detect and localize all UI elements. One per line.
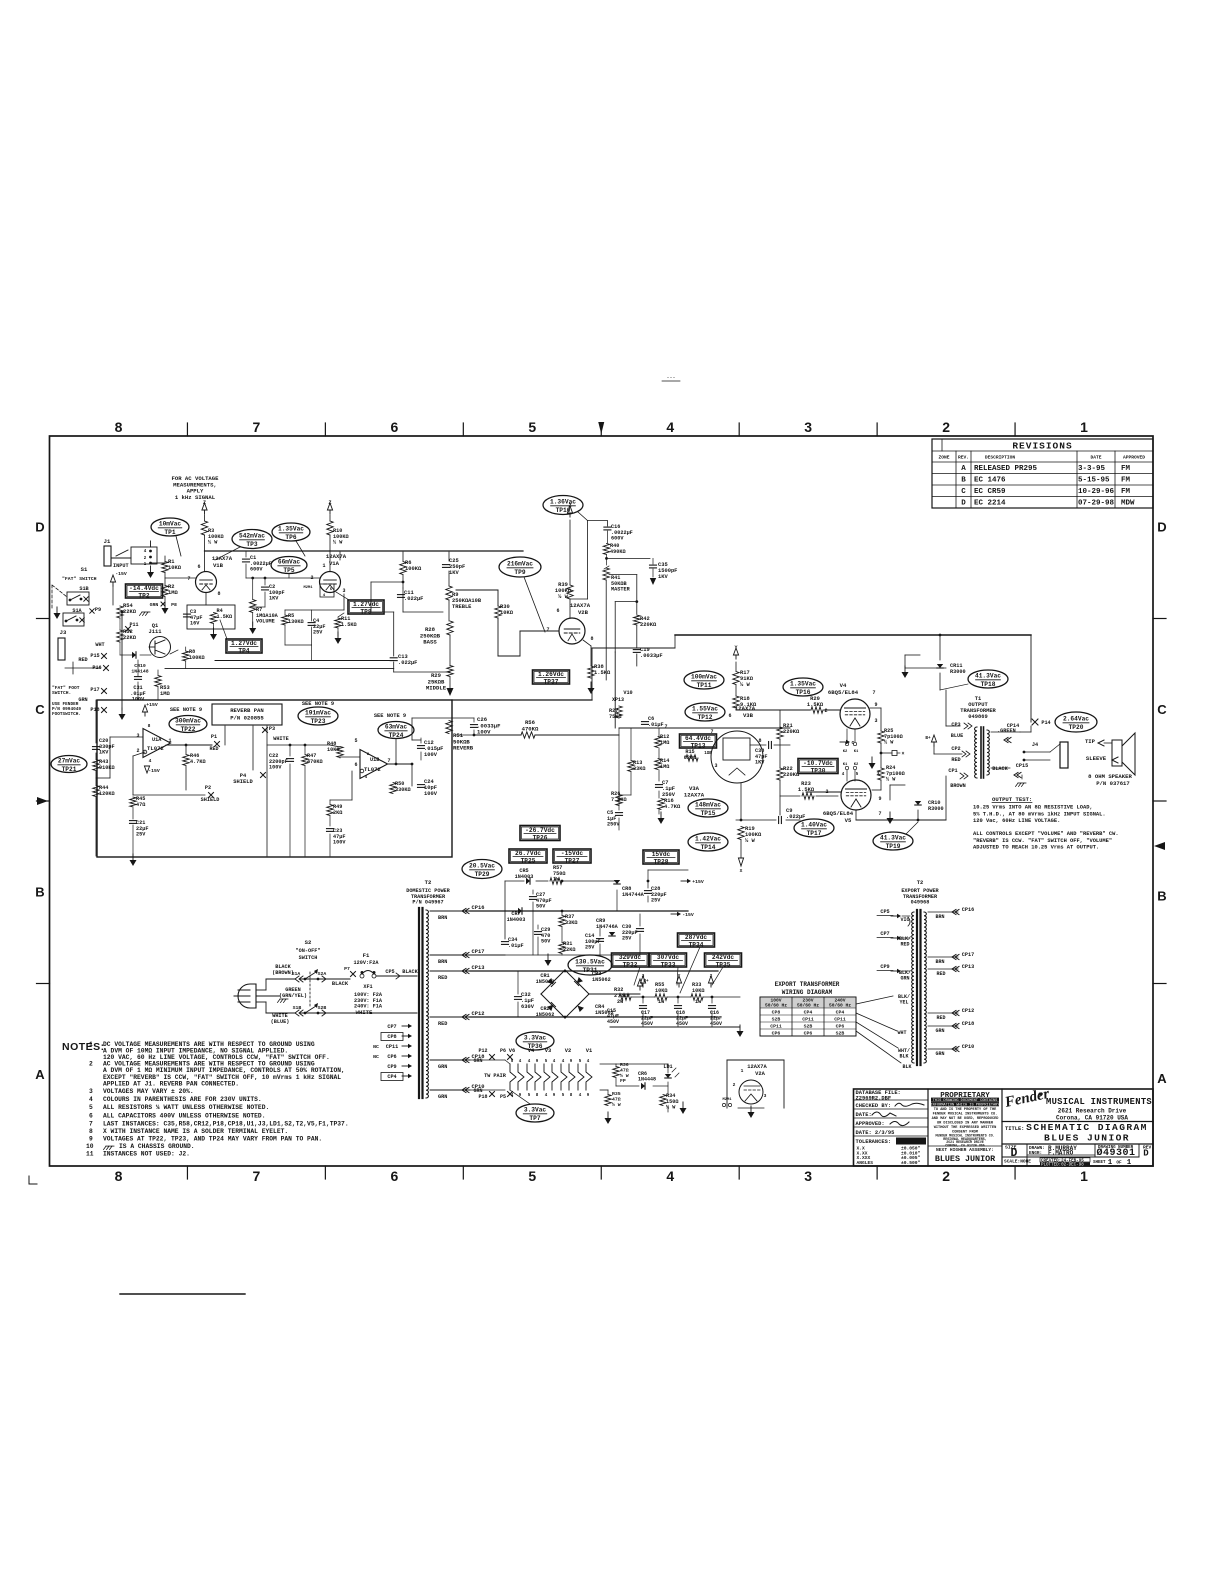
svg-text:CP13: CP13 — [472, 965, 485, 971]
svg-text:4: 4 — [89, 1096, 93, 1103]
svg-text:329Vdc: 329Vdc — [619, 954, 642, 961]
svg-text:Z: Z — [203, 500, 206, 506]
svg-text:TP10: TP10 — [556, 507, 571, 514]
svg-text:.01μF: .01μF — [508, 943, 524, 949]
svg-text:CP13: CP13 — [962, 964, 974, 970]
svg-text:INSTANCES NOT USED: J2.: INSTANCES NOT USED: J2. — [103, 1151, 190, 1158]
svg-text:307Vdc: 307Vdc — [657, 954, 680, 961]
svg-text:5: 5 — [528, 419, 536, 435]
svg-text:TP5: TP5 — [283, 567, 294, 574]
svg-text:J3: J3 — [60, 629, 67, 636]
svg-text:V4: V4 — [528, 1048, 535, 1054]
svg-text:BASS: BASS — [423, 639, 437, 646]
svg-text:K2: K2 — [843, 750, 848, 754]
svg-text:BRN: BRN — [438, 915, 447, 921]
svg-text:4: 4 — [666, 1168, 674, 1184]
svg-text:P6: P6 — [500, 1048, 506, 1054]
svg-text:B: B — [1157, 888, 1166, 903]
svg-text:P8: P8 — [171, 602, 177, 608]
svg-text:S1B: S1B — [293, 1005, 302, 1011]
svg-text:½ W: ½ W — [740, 682, 750, 688]
svg-text:100V: 100V — [424, 752, 438, 758]
svg-text:TP3: TP3 — [246, 541, 257, 548]
svg-text:Z2969R2.DBF: Z2969R2.DBF — [856, 1096, 892, 1102]
svg-text:1KV: 1KV — [755, 760, 765, 766]
svg-text:TP32: TP32 — [623, 961, 638, 968]
svg-text:1 kHz SIGNAL: 1 kHz SIGNAL — [175, 494, 216, 501]
svg-text:2.64Vac: 2.64Vac — [1063, 716, 1089, 723]
svg-text:2: 2 — [89, 1061, 93, 1068]
svg-text:CP6: CP6 — [804, 1031, 813, 1037]
svg-text:RED: RED — [209, 746, 218, 752]
svg-text:"ON-OFF": "ON-OFF" — [296, 948, 321, 954]
svg-text:REVISIONS: REVISIONS — [1012, 441, 1072, 452]
svg-text:47Ω: 47Ω — [620, 1067, 629, 1073]
svg-text:6BQ5/EL84: 6BQ5/EL84 — [828, 689, 859, 696]
svg-text:8: 8 — [758, 738, 761, 744]
svg-text:2: 2 — [710, 973, 713, 979]
svg-text:330KΩ: 330KΩ — [395, 787, 411, 793]
svg-text:EC 2214: EC 2214 — [974, 500, 1006, 508]
svg-text:63mVac: 63mVac — [385, 724, 408, 731]
svg-text:CR10: CR10 — [134, 663, 146, 669]
svg-text:MUSICAL INSTRUMENTS: MUSICAL INSTRUMENTS — [1046, 1097, 1152, 1107]
svg-text:A: A — [961, 465, 966, 473]
svg-text:7: 7 — [878, 811, 881, 817]
svg-text:25V: 25V — [136, 832, 146, 838]
svg-text:41.3Vac: 41.3Vac — [880, 835, 906, 842]
svg-text:1KV: 1KV — [99, 750, 109, 756]
svg-text:4.7KΩ: 4.7KΩ — [664, 804, 681, 810]
svg-text:Z: Z — [328, 500, 331, 506]
svg-text:CP14: CP14 — [1007, 723, 1019, 729]
svg-text:12AX7A: 12AX7A — [735, 705, 756, 712]
svg-text:CP17: CP17 — [472, 949, 485, 955]
svg-text:P5: P5 — [500, 1094, 506, 1100]
svg-text:½ W: ½ W — [612, 1102, 621, 1108]
svg-text:S2B: S2B — [804, 1024, 813, 1030]
svg-text:CP9: CP9 — [387, 1064, 396, 1070]
svg-text:REV.: REV. — [958, 455, 969, 461]
svg-text:250V: 250V — [607, 822, 620, 828]
svg-text:470KΩ: 470KΩ — [522, 725, 539, 732]
svg-text:TP25: TP25 — [521, 857, 536, 864]
svg-text:CP4: CP4 — [836, 1010, 845, 1016]
svg-text:6: 6 — [728, 713, 731, 719]
svg-text:BRN: BRN — [438, 959, 447, 965]
svg-text:CHECKED BY:: CHECKED BY: — [856, 1103, 892, 1109]
svg-text:½ W: ½ W — [208, 540, 218, 546]
svg-text:1N4746A: 1N4746A — [596, 924, 619, 930]
svg-text:TP16: TP16 — [796, 689, 811, 696]
svg-text:M2M1: M2M1 — [303, 586, 313, 590]
svg-text:TP9: TP9 — [514, 569, 525, 576]
svg-text:REVERB PAN: REVERB PAN — [230, 707, 264, 714]
svg-text:ANGLES: ANGLES — [857, 1160, 874, 1166]
svg-text:"FAT" SWITCH: "FAT" SWITCH — [62, 576, 97, 582]
svg-text:1.42Vac: 1.42Vac — [695, 836, 721, 843]
svg-text:5: 5 — [330, 588, 333, 592]
svg-text:1: 1 — [168, 738, 171, 744]
svg-text:2: 2 — [942, 419, 950, 435]
svg-text:20.5Vac: 20.5Vac — [469, 863, 495, 870]
svg-text:5: 5 — [89, 1104, 93, 1111]
svg-text:049869: 049869 — [968, 714, 987, 720]
svg-text:22KΩ: 22KΩ — [123, 609, 137, 615]
svg-text:CP6: CP6 — [387, 1054, 396, 1060]
svg-text:TP26: TP26 — [533, 834, 548, 841]
svg-text:S2: S2 — [305, 939, 312, 946]
svg-text:WITHOUT THE EXPRESSED WRITTEN: WITHOUT THE EXPRESSED WRITTEN — [934, 1126, 997, 1130]
svg-text:C: C — [1157, 702, 1167, 717]
svg-text:1.27Vdc: 1.27Vdc — [231, 640, 257, 647]
svg-text:1.26Vdc: 1.26Vdc — [538, 671, 564, 678]
svg-text:10KΩ: 10KΩ — [168, 565, 182, 571]
svg-text:CP6: CP6 — [772, 1031, 781, 1037]
svg-text:CP17: CP17 — [962, 952, 974, 958]
svg-text:SEE NOTE 9: SEE NOTE 9 — [374, 713, 406, 719]
svg-text:VOLTAGES AT TP22, TP23, AND TP: VOLTAGES AT TP22, TP23, AND TP24 MAY VAR… — [103, 1136, 322, 1143]
svg-text:½ W: ½ W — [666, 1105, 676, 1111]
svg-text:TIP: TIP — [1085, 738, 1096, 745]
svg-text:BLUES JUNIOR: BLUES JUNIOR — [935, 1154, 996, 1164]
svg-text:ADJUSTED TO REACH 10.25 Vrms A: ADJUSTED TO REACH 10.25 Vrms AT OUTPUT. — [973, 845, 1099, 851]
svg-text:100mVac: 100mVac — [691, 674, 717, 681]
svg-text:1.5KΩ: 1.5KΩ — [594, 670, 611, 676]
svg-text:5: 5 — [528, 1168, 536, 1184]
svg-text:TP6: TP6 — [285, 534, 296, 541]
svg-text:BRN: BRN — [935, 959, 944, 965]
svg-text:2: 2 — [136, 748, 139, 754]
svg-text:S1: S1 — [81, 566, 88, 573]
svg-text:P/N 037617: P/N 037617 — [1096, 780, 1130, 787]
svg-text:APPROVED:: APPROVED: — [856, 1121, 885, 1127]
svg-text:RED: RED — [438, 1021, 447, 1027]
svg-text:8: 8 — [536, 1094, 539, 1098]
svg-text:6: 6 — [197, 564, 200, 570]
svg-text:4: 4 — [553, 1060, 556, 1064]
svg-text:NEXT HIGHER ASSEMBLY:: NEXT HIGHER ASSEMBLY: — [936, 1147, 994, 1153]
svg-text:3: 3 — [89, 1088, 93, 1095]
svg-text:R3000: R3000 — [950, 669, 966, 675]
svg-text:ENGR:: ENGR: — [1029, 1151, 1042, 1156]
svg-text:8: 8 — [217, 591, 220, 597]
svg-text:NC: NC — [373, 1054, 379, 1060]
svg-text:TP7: TP7 — [529, 1115, 540, 1122]
svg-text:4: 4 — [545, 1094, 548, 1098]
svg-text:½ W: ½ W — [333, 540, 343, 546]
svg-text:CP4: CP4 — [804, 1010, 813, 1016]
svg-text:242Vdc: 242Vdc — [712, 954, 735, 961]
svg-text:SCHEMATIC DIAGRAM: SCHEMATIC DIAGRAM — [1026, 1122, 1148, 1133]
svg-text:12AX7A: 12AX7A — [570, 602, 591, 609]
svg-text:ALL CONTROLS EXCEPT "VOLUME" A: ALL CONTROLS EXCEPT "VOLUME" AND "REVERB… — [973, 831, 1119, 837]
svg-text:7: 7 — [187, 576, 190, 582]
svg-text:1N5062: 1N5062 — [592, 977, 611, 983]
svg-text:V3: V3 — [545, 1048, 551, 1054]
svg-text:FM: FM — [1121, 477, 1131, 485]
svg-text:33KΩ: 33KΩ — [565, 920, 577, 926]
svg-text:IS A CHASSIS GROUND.: IS A CHASSIS GROUND. — [119, 1143, 195, 1150]
svg-text:6: 6 — [556, 608, 559, 614]
svg-text:F1: F1 — [363, 952, 370, 959]
svg-text:8: 8 — [115, 1168, 123, 1184]
svg-text:F.MATRO: F.MATRO — [1048, 1150, 1074, 1157]
svg-text:V3B: V3B — [743, 712, 754, 719]
svg-text:TP22: TP22 — [181, 726, 196, 733]
svg-text:287Vdc: 287Vdc — [685, 934, 708, 941]
svg-text:.022μF: .022μF — [786, 814, 805, 820]
svg-text:100V: 100V — [333, 840, 346, 846]
svg-text:5: 5 — [511, 1060, 514, 1064]
svg-text:WIRING DIAGRAM: WIRING DIAGRAM — [782, 989, 833, 996]
svg-text:16V: 16V — [190, 621, 200, 627]
svg-text:TP34: TP34 — [689, 941, 704, 948]
svg-text:TP35: TP35 — [716, 961, 731, 968]
svg-text:130KΩ: 130KΩ — [288, 619, 304, 625]
svg-text:C: C — [961, 488, 966, 496]
svg-text:300mVac: 300mVac — [175, 718, 201, 725]
svg-text:CP8: CP8 — [772, 1010, 781, 1016]
svg-text:K1: K1 — [854, 750, 859, 754]
svg-text:9: 9 — [878, 796, 881, 802]
svg-text:BLACK: BLACK — [332, 981, 349, 987]
svg-text:3: 3 — [876, 771, 879, 777]
svg-text:490KΩ: 490KΩ — [610, 549, 626, 555]
svg-text:1ΩB: 1ΩB — [704, 752, 712, 756]
svg-text:148mVac: 148mVac — [695, 802, 721, 809]
svg-text:TO AND IS THE PROPERTY OF THE: TO AND IS THE PROPERTY OF THE — [934, 1108, 997, 1112]
svg-text:10.25 Vrms INTO AN 8Ω RESISTIV: 10.25 Vrms INTO AN 8Ω RESISTIVE LOAD, — [973, 805, 1093, 811]
svg-text:50/60 Hz: 50/60 Hz — [829, 1003, 851, 1009]
svg-text:XP13: XP13 — [612, 697, 624, 703]
svg-text:CP12: CP12 — [472, 1011, 485, 1017]
svg-text:SWITCH.: SWITCH. — [52, 690, 71, 696]
svg-text:5-15-95: 5-15-95 — [1078, 477, 1110, 485]
svg-text:1: 1 — [1080, 1168, 1088, 1184]
svg-text:COLOURS IN PARENTHESIS ARE FOR: COLOURS IN PARENTHESIS ARE FOR 230V UNIT… — [103, 1096, 262, 1103]
svg-text:A: A — [35, 1067, 45, 1082]
svg-text:X WITH INSTANCE NAME IS A SOLD: X WITH INSTANCE NAME IS A SOLDER TERMINA… — [103, 1128, 288, 1135]
svg-text:V2B: V2B — [578, 609, 589, 616]
svg-text:OUTPUT TEST:: OUTPUT TEST: — [992, 796, 1032, 803]
svg-text:10: 10 — [86, 1143, 94, 1150]
svg-text:TP27: TP27 — [565, 857, 580, 864]
svg-text:CP9: CP9 — [880, 964, 889, 970]
svg-text:1KV: 1KV — [658, 574, 668, 580]
svg-text:120V:F2A: 120V:F2A — [354, 960, 380, 966]
svg-text:T2: T2 — [917, 880, 923, 886]
svg-text:V2A: V2A — [755, 1071, 765, 1077]
svg-text:WHITE: WHITE — [273, 736, 289, 742]
svg-text:LAST INSTANCES: C35,R58,CR12,P: LAST INSTANCES: C35,R58,CR12,P18,CP18,U1… — [103, 1120, 349, 1127]
svg-text:4: 4 — [587, 1060, 590, 1064]
svg-text:25V: 25V — [622, 936, 632, 942]
svg-text:5: 5 — [354, 738, 357, 744]
svg-text:J4: J4 — [1032, 742, 1038, 748]
svg-text:TL072: TL072 — [147, 745, 164, 752]
svg-text:EXPORT TRANSFORMER: EXPORT TRANSFORMER — [775, 981, 840, 988]
svg-text:"REVERB" IS CCW. "FAT" SWITCH: "REVERB" IS CCW. "FAT" SWITCH OFF, "VOLU… — [973, 838, 1112, 844]
svg-text:U1A: U1A — [152, 737, 162, 743]
svg-text:120 Vac, 60Hz LINE VOLTAGE.: 120 Vac, 60Hz LINE VOLTAGE. — [973, 818, 1060, 824]
svg-text:50V: 50V — [541, 939, 551, 945]
svg-text:B: B — [961, 477, 966, 485]
svg-text:-10.7Vdc: -10.7Vdc — [803, 760, 833, 767]
svg-text:BLK: BLK — [899, 1054, 908, 1060]
svg-text:2W: 2W — [617, 999, 624, 1005]
svg-text:C: C — [35, 702, 45, 717]
svg-text:4: 4 — [519, 1060, 522, 1064]
svg-text:DATE:: DATE: — [856, 1112, 872, 1118]
svg-text:CP2: CP2 — [951, 746, 960, 752]
svg-text:GRN: GRN — [900, 976, 909, 982]
svg-text:27mVac: 27mVac — [58, 758, 81, 765]
svg-text:CP12: CP12 — [962, 1008, 974, 1014]
svg-text:V6: V6 — [509, 1048, 515, 1054]
svg-text:ZONE: ZONE — [938, 455, 949, 461]
svg-text:47Ω: 47Ω — [136, 802, 145, 808]
svg-text:V4: V4 — [840, 682, 847, 689]
svg-text:S1B: S1B — [79, 586, 88, 592]
svg-text:½ W: ½ W — [620, 1073, 629, 1079]
svg-text:6: 6 — [390, 1168, 398, 1184]
svg-text:7: 7 — [253, 1168, 261, 1184]
svg-text:9: 9 — [570, 1060, 573, 1064]
svg-text:216mVac: 216mVac — [507, 561, 533, 568]
svg-text:P/N 020855: P/N 020855 — [230, 715, 264, 722]
svg-text:1: 1 — [89, 1041, 93, 1048]
svg-text:MDW: MDW — [1121, 500, 1135, 508]
svg-text:J111: J111 — [149, 629, 162, 635]
svg-text:50/60 Hz: 50/60 Hz — [765, 1003, 787, 1009]
svg-text:FP: FP — [620, 1078, 626, 1084]
svg-text:R35: R35 — [612, 1091, 621, 1097]
svg-text:ALL CAPACITORS 400V UNLESS OTH: ALL CAPACITORS 400V UNLESS OTHERWISE NOT… — [103, 1112, 266, 1119]
svg-text:1N4148: 1N4148 — [131, 668, 148, 674]
svg-text:3: 3 — [714, 763, 717, 769]
svg-text:6: 6 — [354, 762, 357, 768]
svg-text:TP37: TP37 — [544, 678, 559, 685]
svg-text:CP6: CP6 — [836, 1024, 845, 1030]
svg-text:TP4: TP4 — [238, 647, 249, 654]
svg-text:V1: V1 — [586, 1048, 592, 1054]
svg-text:TP17: TP17 — [807, 830, 822, 837]
svg-text:1.5KΩ: 1.5KΩ — [217, 614, 233, 620]
svg-text:8: 8 — [115, 419, 123, 435]
svg-text:P2: P2 — [205, 785, 211, 791]
svg-text:Ø49301: Ø49301 — [1096, 1147, 1135, 1159]
svg-text:RED: RED — [438, 975, 447, 981]
svg-text:P18: P18 — [478, 1094, 487, 1100]
svg-text:TP15: TP15 — [701, 810, 716, 817]
svg-text:V5: V5 — [845, 817, 852, 824]
svg-text:1.35Vac: 1.35Vac — [278, 526, 304, 533]
svg-text:SWITCH: SWITCH — [299, 955, 318, 961]
svg-text:CP7: CP7 — [880, 931, 889, 937]
svg-text:CP11: CP11 — [834, 1017, 846, 1023]
svg-text:BLUE: BLUE — [951, 733, 963, 739]
svg-text:NC: NC — [373, 1044, 379, 1050]
svg-text:1: 1 — [1080, 419, 1088, 435]
svg-text:64.4Vdc: 64.4Vdc — [685, 735, 711, 742]
svg-text:ALL RESISTORS ¼ WATT UNLESS OT: ALL RESISTORS ¼ WATT UNLESS OTHERWISE NO… — [103, 1104, 269, 1111]
svg-text:GRN: GRN — [935, 1028, 944, 1034]
svg-text:J1: J1 — [104, 538, 111, 545]
svg-text:4: 4 — [149, 758, 152, 764]
svg-text:3: 3 — [136, 733, 139, 739]
svg-text:4: 4 — [365, 776, 368, 780]
svg-text:CP11: CP11 — [770, 1024, 782, 1030]
svg-text:CP5: CP5 — [880, 909, 889, 915]
svg-text:OF: OF — [1116, 1161, 1122, 1166]
svg-text:P3: P3 — [269, 726, 275, 732]
svg-text:P12: P12 — [478, 1048, 487, 1054]
svg-text:25V: 25V — [585, 945, 595, 951]
svg-text:BLK: BLK — [902, 1064, 911, 1070]
svg-text:7: 7 — [387, 758, 390, 764]
svg-text:TP2: TP2 — [138, 592, 149, 599]
svg-text:B: B — [35, 884, 44, 899]
svg-text:RED: RED — [900, 942, 909, 948]
svg-text:47Ω: 47Ω — [612, 1096, 621, 1102]
svg-text:1: 1 — [1108, 1159, 1113, 1167]
svg-text:3: 3 — [642, 973, 645, 979]
svg-text:(BLUE): (BLUE) — [271, 1019, 290, 1025]
svg-text:7: 7 — [253, 419, 261, 435]
svg-text:5: 5 — [528, 1094, 531, 1098]
svg-text:1: 1 — [741, 1068, 744, 1074]
svg-text:6: 6 — [89, 1112, 93, 1119]
svg-text:12AX7A: 12AX7A — [326, 553, 347, 560]
svg-text:220KΩ: 220KΩ — [640, 622, 657, 628]
svg-text:600V: 600V — [611, 536, 624, 542]
svg-text:D: D — [1157, 519, 1166, 534]
svg-text:1.40Vac: 1.40Vac — [801, 822, 827, 829]
svg-text:542mVac: 542mVac — [239, 533, 265, 540]
svg-text:TL072: TL072 — [364, 766, 381, 773]
svg-text:FM: FM — [1121, 465, 1131, 473]
svg-text:CP8: CP8 — [387, 1034, 396, 1040]
svg-text:1.5KΩ: 1.5KΩ — [341, 622, 357, 628]
svg-text:M2M1: M2M1 — [722, 1098, 732, 1102]
svg-text:1MΩ: 1MΩ — [168, 590, 178, 596]
svg-text:EC CR59: EC CR59 — [974, 488, 1006, 496]
svg-text:P15: P15 — [90, 653, 99, 659]
svg-text:50V: 50V — [536, 904, 546, 910]
svg-text:9: 9 — [536, 1060, 539, 1064]
svg-text:INFORMATION WHICH IS PROPRIETA: INFORMATION WHICH IS PROPRIETARY — [930, 1104, 1000, 1108]
svg-text:S2B: S2B — [836, 1031, 845, 1037]
svg-text:TP8: TP8 — [360, 608, 371, 615]
svg-text:MASTER: MASTER — [611, 587, 631, 593]
svg-text:4: 4 — [666, 419, 674, 435]
svg-text:EC 1476: EC 1476 — [974, 477, 1006, 485]
svg-text:12AX7A: 12AX7A — [684, 791, 705, 798]
svg-text:Y: Y — [678, 973, 681, 979]
svg-text:GRN: GRN — [78, 697, 87, 703]
svg-text:4: 4 — [562, 1060, 565, 1064]
svg-text:100KΩ: 100KΩ — [405, 566, 422, 572]
svg-text:WHT: WHT — [897, 1030, 906, 1036]
svg-text:4.7KΩ: 4.7KΩ — [190, 759, 206, 765]
svg-text:4: 4 — [144, 550, 147, 554]
svg-text:FENDER MUSICAL INSTRUMENTS CO.: FENDER MUSICAL INSTRUMENTS CO. — [933, 1113, 998, 1117]
svg-text:GRN: GRN — [438, 1094, 447, 1100]
svg-text:9: 9 — [874, 702, 877, 708]
svg-text:CP10: CP10 — [962, 1044, 974, 1050]
svg-text:B+: B+ — [925, 736, 931, 741]
